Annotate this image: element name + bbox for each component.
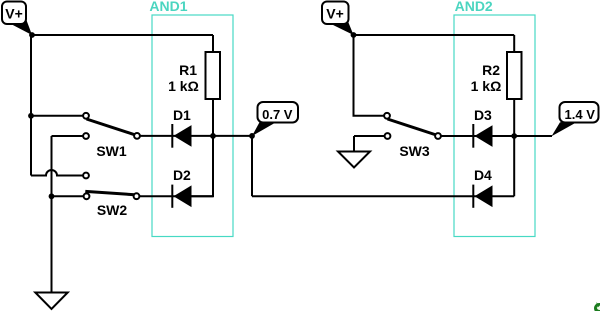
svg-text:1 kΩ: 1 kΩ <box>168 78 199 94</box>
svg-text:SW2: SW2 <box>97 202 128 218</box>
svg-text:D4: D4 <box>474 167 492 183</box>
svg-text:R2: R2 <box>482 62 500 78</box>
svg-text:SW1: SW1 <box>96 143 127 159</box>
svg-text:D3: D3 <box>474 107 492 123</box>
svg-text:0.7 V: 0.7 V <box>262 107 293 122</box>
svg-text:V+: V+ <box>5 5 23 21</box>
svg-text:AND1: AND1 <box>149 0 187 14</box>
svg-text:V+: V+ <box>326 5 344 21</box>
svg-text:1.4 V: 1.4 V <box>565 107 596 122</box>
svg-text:AND2: AND2 <box>455 0 493 14</box>
svg-text:D2: D2 <box>173 167 191 183</box>
svg-text:R1: R1 <box>179 62 197 78</box>
svg-text:SW3: SW3 <box>399 143 430 159</box>
svg-text:D1: D1 <box>173 107 191 123</box>
svg-text:1 kΩ: 1 kΩ <box>471 78 502 94</box>
